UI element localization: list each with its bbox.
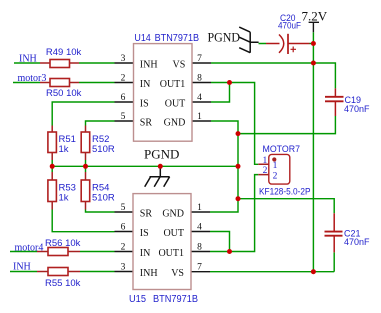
svg-text:KF128-5.0-2P: KF128-5.0-2P bbox=[259, 187, 311, 198]
svg-text:1k: 1k bbox=[59, 144, 69, 155]
svg-text:2: 2 bbox=[273, 171, 278, 181]
svg-text:2: 2 bbox=[121, 74, 126, 84]
svg-text:1k: 1k bbox=[59, 193, 69, 204]
svg-text:470nF: 470nF bbox=[344, 104, 370, 115]
svg-text:INH: INH bbox=[13, 262, 31, 273]
svg-text:4: 4 bbox=[197, 93, 202, 103]
svg-text:BTN7971B: BTN7971B bbox=[153, 294, 198, 305]
svg-text:510R: 510R bbox=[92, 144, 115, 155]
svg-text:2: 2 bbox=[263, 166, 268, 176]
svg-text:R49 10k: R49 10k bbox=[46, 47, 82, 58]
svg-text:IS: IS bbox=[140, 99, 149, 110]
svg-text:7.2V: 7.2V bbox=[302, 9, 328, 24]
svg-text:U15: U15 bbox=[129, 294, 146, 305]
svg-text:OUT1: OUT1 bbox=[158, 248, 184, 259]
svg-text:U14: U14 bbox=[134, 33, 151, 44]
svg-text:8: 8 bbox=[197, 243, 202, 253]
svg-text:1: 1 bbox=[197, 112, 202, 122]
svg-text:5: 5 bbox=[121, 203, 126, 213]
svg-text:IS: IS bbox=[140, 228, 149, 239]
svg-text:IN: IN bbox=[140, 248, 151, 259]
svg-text:PGND: PGND bbox=[208, 30, 241, 45]
svg-text:SR: SR bbox=[140, 118, 153, 129]
svg-text:OUT: OUT bbox=[163, 228, 184, 239]
svg-text:1: 1 bbox=[273, 161, 278, 171]
svg-text:R56 10k: R56 10k bbox=[45, 238, 81, 249]
svg-text:7: 7 bbox=[197, 54, 202, 64]
svg-text:BTN7971B: BTN7971B bbox=[155, 33, 200, 44]
svg-text:R50 10k: R50 10k bbox=[46, 88, 82, 99]
svg-text:INH: INH bbox=[19, 54, 37, 65]
svg-text:SR: SR bbox=[140, 209, 153, 220]
svg-text:1: 1 bbox=[197, 203, 202, 213]
svg-text:INH: INH bbox=[140, 60, 158, 71]
svg-text:3: 3 bbox=[121, 263, 126, 273]
svg-text:6: 6 bbox=[121, 223, 126, 233]
svg-text:motor4: motor4 bbox=[15, 243, 44, 254]
svg-text:510R: 510R bbox=[92, 193, 115, 204]
svg-text:OUT: OUT bbox=[165, 99, 186, 110]
svg-text:R55 10k: R55 10k bbox=[45, 278, 81, 289]
svg-text:OUT1: OUT1 bbox=[160, 79, 186, 90]
svg-text:1: 1 bbox=[263, 156, 268, 166]
svg-text:6: 6 bbox=[121, 93, 126, 103]
svg-text:IN: IN bbox=[140, 79, 151, 90]
svg-text:2: 2 bbox=[121, 243, 126, 253]
svg-text:PGND: PGND bbox=[144, 147, 179, 162]
svg-text:7: 7 bbox=[197, 263, 202, 273]
svg-text:5: 5 bbox=[121, 112, 126, 122]
svg-text:VS: VS bbox=[173, 60, 186, 71]
svg-text:470nF: 470nF bbox=[344, 237, 370, 248]
svg-text:4: 4 bbox=[197, 223, 202, 233]
svg-text:MOTOR7: MOTOR7 bbox=[263, 144, 301, 155]
svg-text:470uF: 470uF bbox=[278, 21, 301, 32]
svg-text:INH: INH bbox=[140, 268, 158, 279]
svg-text:VS: VS bbox=[171, 268, 184, 279]
svg-text:8: 8 bbox=[197, 74, 202, 84]
svg-text:3: 3 bbox=[121, 54, 126, 64]
svg-text:GND: GND bbox=[162, 209, 184, 220]
svg-text:GND: GND bbox=[164, 118, 186, 129]
svg-text:motor3: motor3 bbox=[18, 73, 47, 84]
